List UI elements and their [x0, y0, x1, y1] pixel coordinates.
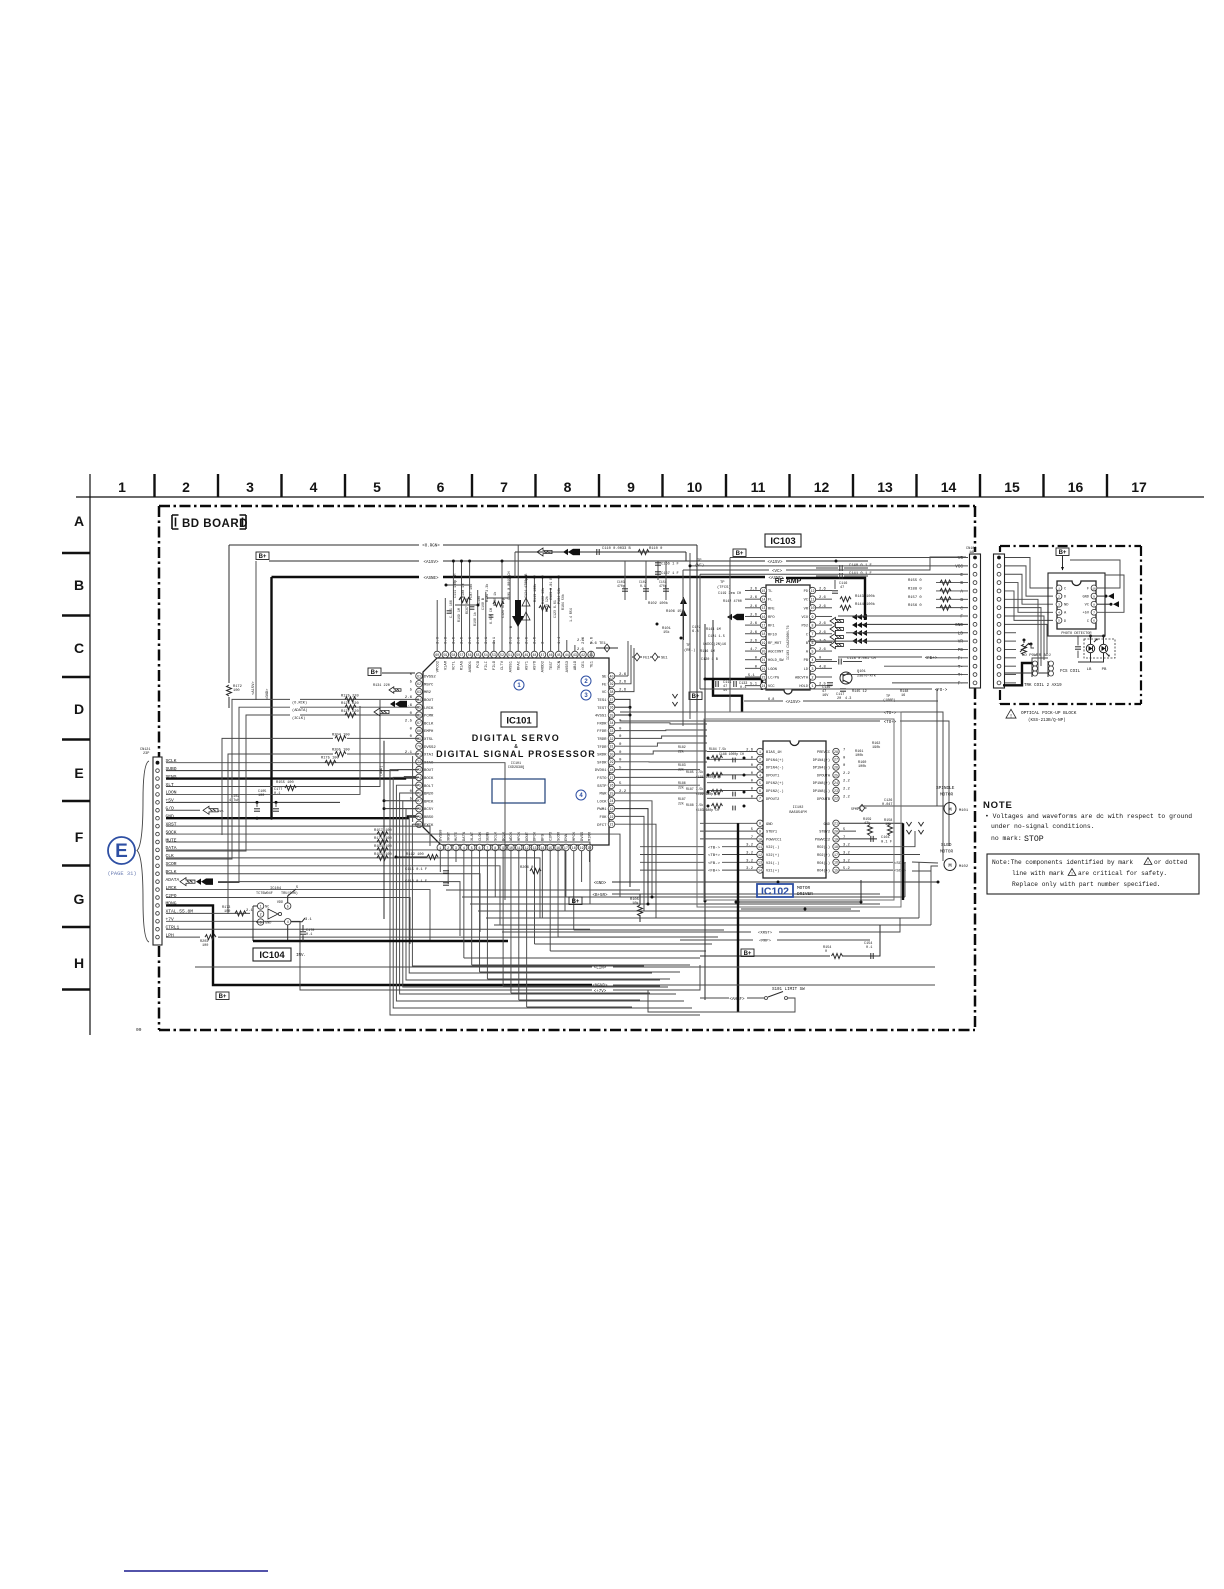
svg-text:G: G [74, 891, 85, 907]
svg-text:VR: VR [958, 640, 964, 645]
svg-text:RO4(-): RO4(-) [817, 861, 830, 866]
svg-text:14: 14 [758, 869, 762, 873]
svg-text:C109 0.0015 CH: C109 0.0015 CH [508, 572, 512, 601]
svg-text:C123 0.01: C123 0.01 [553, 600, 557, 618]
svg-text:F+: F+ [958, 656, 964, 661]
svg-text:MUTE: MUTE [455, 831, 459, 841]
svg-text:C110 0.0033 B: C110 0.0033 B [602, 547, 632, 551]
svg-text:!: ! [1009, 712, 1012, 719]
svg-text:R109 3.3k: R109 3.3k [485, 584, 490, 602]
svg-text:7: 7 [1093, 612, 1095, 615]
motor driver IC102 chip body [763, 741, 826, 878]
svg-text:E: E [115, 841, 128, 862]
svg-text:(GND): (GND) [379, 765, 384, 776]
svg-text:R127 220: R127 220 [341, 710, 359, 714]
svg-text:TES1: TES1 [597, 699, 607, 703]
svg-text:RFAC: RFAC [517, 660, 521, 670]
svg-text:DVSS: DVSS [581, 831, 585, 841]
svg-text:AVSS1: AVSS1 [509, 660, 513, 672]
svg-text:<A15V>: <A15V> [767, 560, 783, 565]
svg-text:no mark:: no mark: [991, 835, 1022, 842]
svg-text:17: 17 [564, 846, 568, 850]
svg-text:<A15V>: <A15V> [251, 681, 256, 695]
sled motor M102 [944, 859, 956, 871]
svg-text:<A15V>: <A15V> [785, 700, 801, 705]
resistor R126 220 wire ADATA [300, 706, 419, 708]
svg-text:C2PO: C2PO [549, 831, 553, 841]
svg-text:<VC>: <VC> [772, 569, 783, 574]
svg-text:BMCK: BMCK [424, 800, 434, 804]
svg-text:17: 17 [1131, 479, 1147, 495]
svg-text:SSTP: SSTP [597, 785, 607, 789]
svg-text:R206 0: R206 0 [520, 866, 533, 870]
svg-text:15: 15 [548, 846, 552, 850]
svg-text:20: 20 [762, 649, 766, 653]
resistor R175 100 wire SCLK [166, 763, 505, 900]
svg-text:RF_MOT: RF_MOT [768, 642, 782, 646]
svg-text:CXD2938Q: CXD2938Q [508, 766, 524, 770]
svg-text:C183 680p CH: C183 680p CH [696, 808, 719, 812]
svg-text:100: 100 [224, 910, 230, 914]
svg-text:<A15V>: <A15V> [423, 560, 439, 565]
svg-text:15: 15 [1004, 479, 1020, 495]
svg-text:M: M [948, 806, 951, 813]
svg-text:47: 47 [541, 653, 545, 657]
svg-text:(100P): (100P) [883, 698, 896, 703]
wires IC101 right pins [627, 641, 629, 676]
svg-text:(O.RCK): (O.RCK) [292, 700, 307, 705]
svg-text:DATA: DATA [463, 831, 467, 841]
svg-text:B+: B+ [744, 951, 752, 957]
svg-text:5: 5 [812, 649, 814, 653]
svg-text:TC7SW04F: TC7SW04F [256, 892, 273, 896]
svg-text:PWM1: PWM1 [597, 808, 607, 812]
svg-text:22k: 22k [678, 802, 684, 806]
spindle motor M101 [944, 803, 956, 815]
resistor R205 100 [347, 753, 419, 755]
svg-text:DPOUTA: DPOUTA [817, 774, 831, 778]
svg-text:5: 5 [759, 781, 761, 785]
svg-text:DP1N2(+): DP1N2(+) [766, 781, 784, 786]
footer line [124, 1570, 268, 1572]
svg-text:27: 27 [834, 758, 838, 762]
svg-text:13: 13 [877, 479, 893, 495]
svg-text:C: C [74, 640, 84, 656]
svg-text:BOCK: BOCK [424, 777, 434, 781]
svg-text:23: 23 [762, 675, 766, 679]
svg-text:11: 11 [811, 598, 815, 602]
svg-text:IC101: IC101 [506, 716, 532, 727]
svg-text:22: 22 [762, 667, 766, 671]
svg-text:XTAI: XTAI [424, 754, 433, 758]
svg-text:16: 16 [1068, 479, 1084, 495]
svg-text:<FE+>: <FE+> [925, 656, 938, 661]
svg-text:MR2: MR2 [424, 691, 432, 695]
svg-text:<MGND>: <MGND> [592, 984, 608, 989]
svg-text:DP1N4(-): DP1N4(-) [813, 766, 830, 771]
svg-text:RFE: RFE [768, 607, 775, 611]
svg-text:10: 10 [1092, 587, 1096, 590]
svg-text:SPMI: SPMI [851, 807, 859, 811]
svg-text:2.5: 2.5 [405, 720, 413, 724]
svg-text:10: 10 [687, 479, 703, 495]
svg-text:(3CLK): (3CLK) [292, 716, 305, 721]
svg-text:MPCK: MPCK [573, 831, 577, 841]
svg-text:6.8: 6.8 [692, 630, 699, 634]
svg-text:R169 1M: R169 1M [457, 608, 461, 622]
svg-text:09: 09 [136, 1027, 142, 1033]
svg-text:11: 11 [758, 845, 762, 849]
svg-text:LD: LD [804, 668, 808, 672]
svg-text:EMA: EMA [565, 833, 569, 841]
svg-text:Q101: Q101 [857, 670, 867, 674]
svg-text:R143 1M: R143 1M [706, 628, 721, 632]
svg-text:8: 8 [564, 479, 572, 495]
svg-text:FSTO: FSTO [597, 777, 607, 781]
svg-text:F: F [75, 829, 84, 845]
svg-text:38: 38 [610, 690, 614, 694]
wire thick to TRK coil [1003, 663, 1032, 685]
svg-text:<AHSF>: <AHSF> [729, 997, 745, 1002]
svg-text:35: 35 [610, 713, 614, 717]
svg-text:DRIVER: DRIVER [797, 892, 813, 897]
svg-text:Note:The components identified: Note:The components identified by mark [992, 859, 1133, 866]
svg-text:1.4 R54: 1.4 R54 [569, 608, 573, 622]
svg-text:DP1N4(+): DP1N4(+) [766, 758, 784, 763]
svg-text:C111 100p CH: C111 100p CH [454, 574, 458, 598]
svg-text:6: 6 [479, 846, 481, 850]
svg-text:39: 39 [610, 682, 614, 686]
svg-text:2: 2 [812, 675, 814, 679]
svg-text:26: 26 [834, 766, 838, 770]
svg-text:12: 12 [814, 479, 830, 495]
svg-text:4: 4 [463, 846, 465, 850]
svg-text:LD POWER ADJ: LD POWER ADJ [1022, 654, 1051, 658]
svg-text:23P: 23P [143, 752, 149, 756]
svg-text:30: 30 [610, 752, 614, 756]
svg-text:V22(-): V22(-) [766, 845, 779, 850]
svg-text:R146 1M: R146 1M [700, 650, 715, 654]
svg-text:POWVCC1: POWVCC1 [766, 838, 782, 842]
svg-text:RF1O: RF1O [768, 633, 778, 637]
wires below IC102 [736, 901, 861, 903]
svg-text:ND: ND [1064, 604, 1069, 608]
svg-text:R156 0: R156 0 [908, 604, 922, 608]
svg-text:B+: B+ [572, 899, 580, 905]
svg-text:R168 1k: R168 1k [473, 612, 477, 626]
svg-text:R157 0: R157 0 [908, 596, 922, 600]
svg-text:17: 17 [762, 624, 766, 628]
svg-text:49: 49 [524, 653, 528, 657]
svg-text:1: 1 [260, 904, 262, 908]
svg-text:VCC: VCC [955, 564, 963, 569]
svg-text:<O.RGN>: <O.RGN> [422, 544, 440, 549]
svg-text:AB1O: AB1O [574, 660, 578, 670]
svg-text:B+: B+ [692, 694, 700, 700]
svg-text:62: 62 [417, 682, 421, 686]
svg-text:10: 10 [758, 837, 762, 841]
svg-text:BOUT: BOUT [424, 699, 434, 703]
svg-text:C118 0.001 CH: C118 0.001 CH [847, 657, 876, 661]
svg-text:C121 1.5: C121 1.5 [708, 635, 725, 639]
svg-text:4.7uH: 4.7uH [229, 799, 240, 803]
GND vertical bus at IC101 left [383, 741, 385, 919]
svg-text:C-111 100: C-111 100 [449, 600, 453, 618]
svg-text:FE: FE [602, 683, 607, 687]
svg-text:VCTL: VCTL [453, 660, 457, 670]
svg-text:1: 1 [439, 846, 441, 850]
svg-text:100: 100 [258, 794, 264, 798]
svg-text:2: 2 [260, 912, 262, 916]
svg-text:SE1: SE1 [661, 657, 668, 661]
svg-text:2.2: 2.2 [843, 772, 851, 776]
svg-text:F: F [960, 615, 963, 620]
svg-text:BFS: BFS [542, 833, 546, 841]
svg-text:B: B [960, 598, 963, 603]
svg-text:M: M [948, 862, 951, 869]
svg-text:3: 3 [455, 846, 457, 850]
svg-text:0.015 CH: 0.015 CH [489, 608, 493, 624]
svg-text:<FB->: <FB-> [708, 861, 721, 866]
svg-text:57: 57 [460, 653, 464, 657]
wires CN102 to photo detector [1005, 558, 1053, 589]
svg-text:8: 8 [1093, 604, 1095, 607]
svg-text:4: 4 [287, 920, 289, 924]
power flags B+ [256, 552, 269, 560]
svg-text:LGON: LGON [768, 668, 777, 672]
svg-text:PC07 10k: PC07 10k [469, 584, 474, 600]
svg-text:36: 36 [610, 706, 614, 710]
page reference E (PAGE 31) [108, 837, 135, 864]
svg-text:52: 52 [500, 653, 504, 657]
svg-text:C123 0.01 B: C123 0.01 B [550, 578, 554, 600]
svg-text:53: 53 [492, 653, 496, 657]
svg-text:0: 0 [825, 950, 827, 954]
svg-text:45: 45 [557, 653, 561, 657]
svg-text:22k: 22k [678, 768, 684, 772]
wire GND thick [166, 816, 416, 818]
input network left of IC102 [707, 751, 757, 753]
svg-text:MPCK: MPCK [518, 831, 522, 841]
safety note box [987, 854, 1199, 894]
svg-text:SRDR: SRDR [597, 754, 607, 758]
svg-text:AVSS3: AVSS3 [566, 660, 570, 672]
svg-text:16: 16 [901, 694, 905, 698]
svg-text:XRST: XRST [447, 831, 451, 841]
label IC103 [765, 534, 801, 547]
svg-text:15k: 15k [663, 630, 670, 635]
svg-text:C112 0.1 F: C112 0.1 F [405, 880, 427, 884]
svg-text:R145 12: R145 12 [852, 690, 867, 694]
svg-text:B+: B+ [1059, 550, 1067, 556]
svg-text:PHOTO DETECTOR: PHOTO DETECTOR [1061, 632, 1092, 636]
svg-text:6: 6 [1093, 620, 1095, 623]
svg-text:POWVCC2: POWVCC2 [815, 838, 830, 842]
capacitor C103 470p [624, 561, 626, 600]
svg-text:24: 24 [610, 799, 614, 803]
svg-text:are critical for safety.: are critical for safety. [1078, 870, 1167, 877]
svg-text:25: 25 [610, 791, 614, 795]
laser diode LB and photo diode PB [1084, 639, 1115, 658]
potentiometer LD POWER ADJ [1023, 639, 1026, 642]
svg-text:4: 4 [1058, 612, 1060, 615]
svg-text:46: 46 [549, 653, 553, 657]
svg-text:STBY2: STBY2 [819, 831, 830, 835]
svg-text:14: 14 [762, 598, 766, 602]
svg-text:61: 61 [417, 674, 421, 678]
grid ruler left [89, 474, 91, 1035]
svg-text:R185 7.5k: R185 7.5k [686, 770, 703, 774]
svg-text:LC/PG: LC/PG [768, 676, 779, 681]
svg-text:FRDR: FRDR [597, 722, 607, 726]
svg-text:42: 42 [581, 653, 585, 657]
svg-text:BA5954FM: BA5954FM [789, 811, 806, 815]
svg-text:43: 43 [573, 653, 577, 657]
svg-text:3.1: 3.1 [305, 918, 313, 922]
resistor R127 220 wire CLK [300, 714, 419, 716]
svg-text:100k: 100k [855, 753, 863, 758]
svg-text:R204 100: R204 100 [332, 733, 350, 737]
svg-text:DVSS2: DVSS2 [424, 676, 436, 680]
svg-text:TP: TP [720, 581, 725, 585]
svg-text:RO2(-): RO2(-) [817, 845, 830, 850]
svg-text:4: 4 [310, 479, 318, 495]
connector CN121 [153, 757, 162, 945]
svg-text:18: 18 [762, 632, 766, 636]
svg-text:10: 10 [811, 606, 815, 610]
svg-text:2.6 TE1: 2.6 TE1 [590, 642, 607, 646]
svg-text:FFDR: FFDR [597, 730, 607, 734]
label IC104 [253, 948, 291, 961]
svg-text:44: 44 [565, 653, 569, 657]
svg-text:BD BOARD: BD BOARD [182, 518, 248, 530]
svg-text:2.6: 2.6 [577, 648, 585, 652]
svg-text:9: 9 [812, 615, 814, 619]
wire O.RGN net [229, 544, 419, 546]
svg-text:!: ! [1071, 872, 1074, 877]
label IC101 [501, 712, 537, 727]
svg-text:7: 7 [812, 632, 814, 636]
svg-text:9: 9 [759, 830, 761, 834]
svg-text:24: 24 [762, 684, 766, 688]
svg-text:PB: PB [1102, 668, 1107, 672]
svg-text:9: 9 [1093, 595, 1095, 598]
svg-text:60: 60 [435, 653, 439, 657]
svg-text:DP1N2(-): DP1N2(-) [766, 789, 784, 794]
svg-text:13: 13 [762, 606, 766, 610]
svg-text:C161: C161 [881, 836, 891, 840]
svg-text:4.3: 4.3 [845, 697, 851, 701]
svg-text:(PAGE 31): (PAGE 31) [107, 871, 136, 877]
svg-text:21: 21 [762, 658, 766, 662]
svg-text:AVDD2: AVDD2 [542, 660, 546, 672]
svg-text:R154 100: R154 100 [374, 845, 392, 849]
svg-text:F: F [1087, 587, 1089, 591]
svg-text:FILI: FILI [485, 661, 489, 670]
svg-text:R187 7.5k: R187 7.5k [686, 787, 703, 791]
svg-text:12: 12 [811, 589, 815, 593]
svg-text:22: 22 [834, 797, 838, 801]
svg-text:AVDD1: AVDD1 [469, 660, 473, 672]
power flag B+ optical block [1056, 548, 1069, 556]
svg-text:16: 16 [762, 615, 766, 619]
svg-text:2: 2 [759, 758, 761, 762]
svg-text:<TB+>: <TB+> [708, 853, 721, 858]
svg-text:28: 28 [610, 768, 614, 772]
svg-text:2SB?0-RTK: 2SB?0-RTK [857, 675, 877, 679]
svg-text:56: 56 [468, 653, 472, 657]
svg-text:19: 19 [580, 846, 584, 850]
svg-text:R144 100k: R144 100k [855, 602, 876, 607]
svg-text:23: 23 [834, 789, 838, 793]
svg-text:INV.: INV. [296, 954, 306, 958]
svg-text:R155 0: R155 0 [908, 579, 922, 583]
svg-text:15: 15 [762, 589, 766, 593]
svg-text:ADATA: ADATA [166, 877, 180, 883]
IC101 bottom pins 1-20 [437, 844, 444, 851]
svg-text:5: 5 [287, 904, 289, 908]
svg-text:100k: 100k [858, 764, 866, 769]
svg-text:VDD: VDD [277, 901, 283, 905]
svg-text:14: 14 [540, 846, 544, 850]
svg-text:TP: TP [686, 644, 691, 648]
svg-text:BOLT: BOLT [424, 785, 434, 789]
svg-text:<TB->: <TB-> [708, 845, 721, 850]
svg-text:23: 23 [610, 807, 614, 811]
svg-text:58: 58 [451, 653, 455, 657]
svg-text:21: 21 [610, 823, 614, 827]
svg-text:31: 31 [610, 745, 614, 749]
svg-text:R143 100k: R143 100k [855, 594, 876, 599]
svg-text:CLTV: CLTV [501, 660, 505, 670]
svg-text:C188 1000p CH: C188 1000p CH [719, 752, 744, 756]
svg-text:<ASNE>: <ASNE> [423, 576, 439, 581]
svg-text:MOTOR: MOTOR [940, 850, 954, 855]
svg-text:3: 3 [1058, 604, 1060, 607]
svg-text:M102: M102 [959, 865, 969, 869]
svg-text:0.1: 0.1 [640, 584, 646, 588]
svg-text:TEST: TEST [597, 707, 607, 711]
svg-text:9: 9 [502, 846, 504, 850]
svg-text:R112 100: R112 100 [406, 853, 424, 857]
wire ASNE ground bus [272, 576, 420, 578]
svg-text:22k: 22k [678, 750, 684, 754]
svg-text:MOTOR: MOTOR [797, 886, 811, 891]
svg-text:DP1N8(-): DP1N8(-) [813, 789, 830, 794]
svg-text:V1AM: V1AM [445, 660, 449, 670]
svg-text:R184 7.5k: R184 7.5k [709, 747, 726, 751]
svg-text:R157 100: R157 100 [374, 829, 392, 833]
svg-text:MSYC: MSYC [424, 683, 434, 687]
svg-text:25: 25 [834, 773, 838, 777]
svg-text:V21(+): V21(+) [766, 869, 779, 874]
svg-text:<TO+>: <TO+> [884, 720, 897, 725]
svg-text:7: 7 [486, 846, 488, 850]
svg-text:R100 1M: R100 1M [462, 584, 466, 598]
svg-text:TRCN: TRCN [558, 661, 562, 670]
svg-text:18: 18 [572, 846, 576, 850]
svg-text:63: 63 [417, 690, 421, 694]
svg-text:GND: GND [955, 623, 963, 628]
svg-text:C: C [806, 633, 808, 637]
svg-text:FCS COIL: FCS COIL [1060, 670, 1081, 674]
svg-text:A: A [960, 590, 963, 595]
svg-text:LD: LD [958, 631, 964, 636]
svg-text:13: 13 [533, 846, 537, 850]
svg-text:V21(-): V21(-) [766, 861, 779, 866]
svg-text:7: 7 [759, 797, 761, 801]
svg-text:R110 0: R110 0 [649, 547, 662, 551]
